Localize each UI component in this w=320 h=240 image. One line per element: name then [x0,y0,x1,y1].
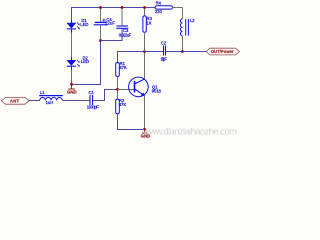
inductor L2 [180,8,195,52]
resistor R1 47K [116,61,127,88]
wire C4 bottom to gnd corner [72,41,101,85]
capacitor C4 22uF electrolytic [94,8,116,41]
node base junction [116,88,119,91]
wire collector node to C2 [145,51,164,53]
svg-text:0.022uF: 0.022uF [119,32,132,37]
transistor Q1 9018 [129,77,162,97]
wire L1 to C1 [62,100,89,102]
diode D1 (LED) [67,18,89,29]
capacitor C1 [87,90,99,110]
resistor R4 220 [155,1,183,15]
wire C1 to base node [93,90,117,101]
port ANT [1,98,29,105]
ground GND1 [67,85,77,95]
capacitor C2 15pF [161,41,168,62]
svg-text:www.dianziaihaozhe.com: www.dianziaihaozhe.com [142,127,237,138]
wire R2 bottom to emitter node [118,114,145,130]
svg-text:LED: LED [81,59,89,64]
node C4-C3 junction [99,39,102,42]
svg-text:22uF: 22uF [105,21,115,26]
node emitter junction [143,128,146,131]
wire C2 to L2 node [166,51,183,53]
port OUT/Power [206,48,240,55]
node rail-C3 junction [121,6,124,9]
node rail-C4 junction [99,6,102,9]
svg-text:220: 220 [155,9,163,14]
svg-text:R4: R4 [156,1,162,6]
ground GND2 [141,130,151,139]
svg-text:GND: GND [67,90,77,95]
svg-text:1000pF: 1000pF [87,105,99,110]
wire collector up [144,52,146,80]
wire to OUT port [183,51,207,53]
svg-text:47K: 47K [119,65,127,70]
svg-text:15pF: 15pF [161,56,168,61]
svg-text:OUT/Power: OUT/Power [211,49,234,54]
wire ANT to L1 [29,100,40,102]
inductor L1 [39,90,63,105]
svg-text:1uH: 1uH [46,100,54,105]
wire emitter down [144,96,146,130]
svg-text:C1: C1 [89,90,95,95]
wire pin D2-gnd [71,67,73,70]
node gnd-left junction [70,83,73,86]
wire base pin [118,89,135,91]
wire pin D1-D2 [71,30,73,33]
wire top rail [72,8,156,21]
svg-text:L1: L1 [40,90,45,95]
svg-text:47K: 47K [119,102,127,107]
svg-text:LED: LED [80,22,88,27]
capacitor C3 0.022uF [101,8,132,41]
svg-text:ANT: ANT [10,99,20,104]
resistor R3 1K [143,8,153,52]
node collector junction [143,50,146,53]
node rail-R3 junction [143,6,146,9]
resistor R2 47K [116,91,127,114]
svg-text:C2: C2 [161,41,167,46]
node L2-output junction [181,50,184,53]
wire R1 top feed [118,52,145,63]
svg-text:L2: L2 [190,18,195,23]
svg-text:9018: 9018 [152,88,162,93]
svg-text:1K: 1K [147,21,152,26]
diode D2 (LED) [67,55,89,66]
